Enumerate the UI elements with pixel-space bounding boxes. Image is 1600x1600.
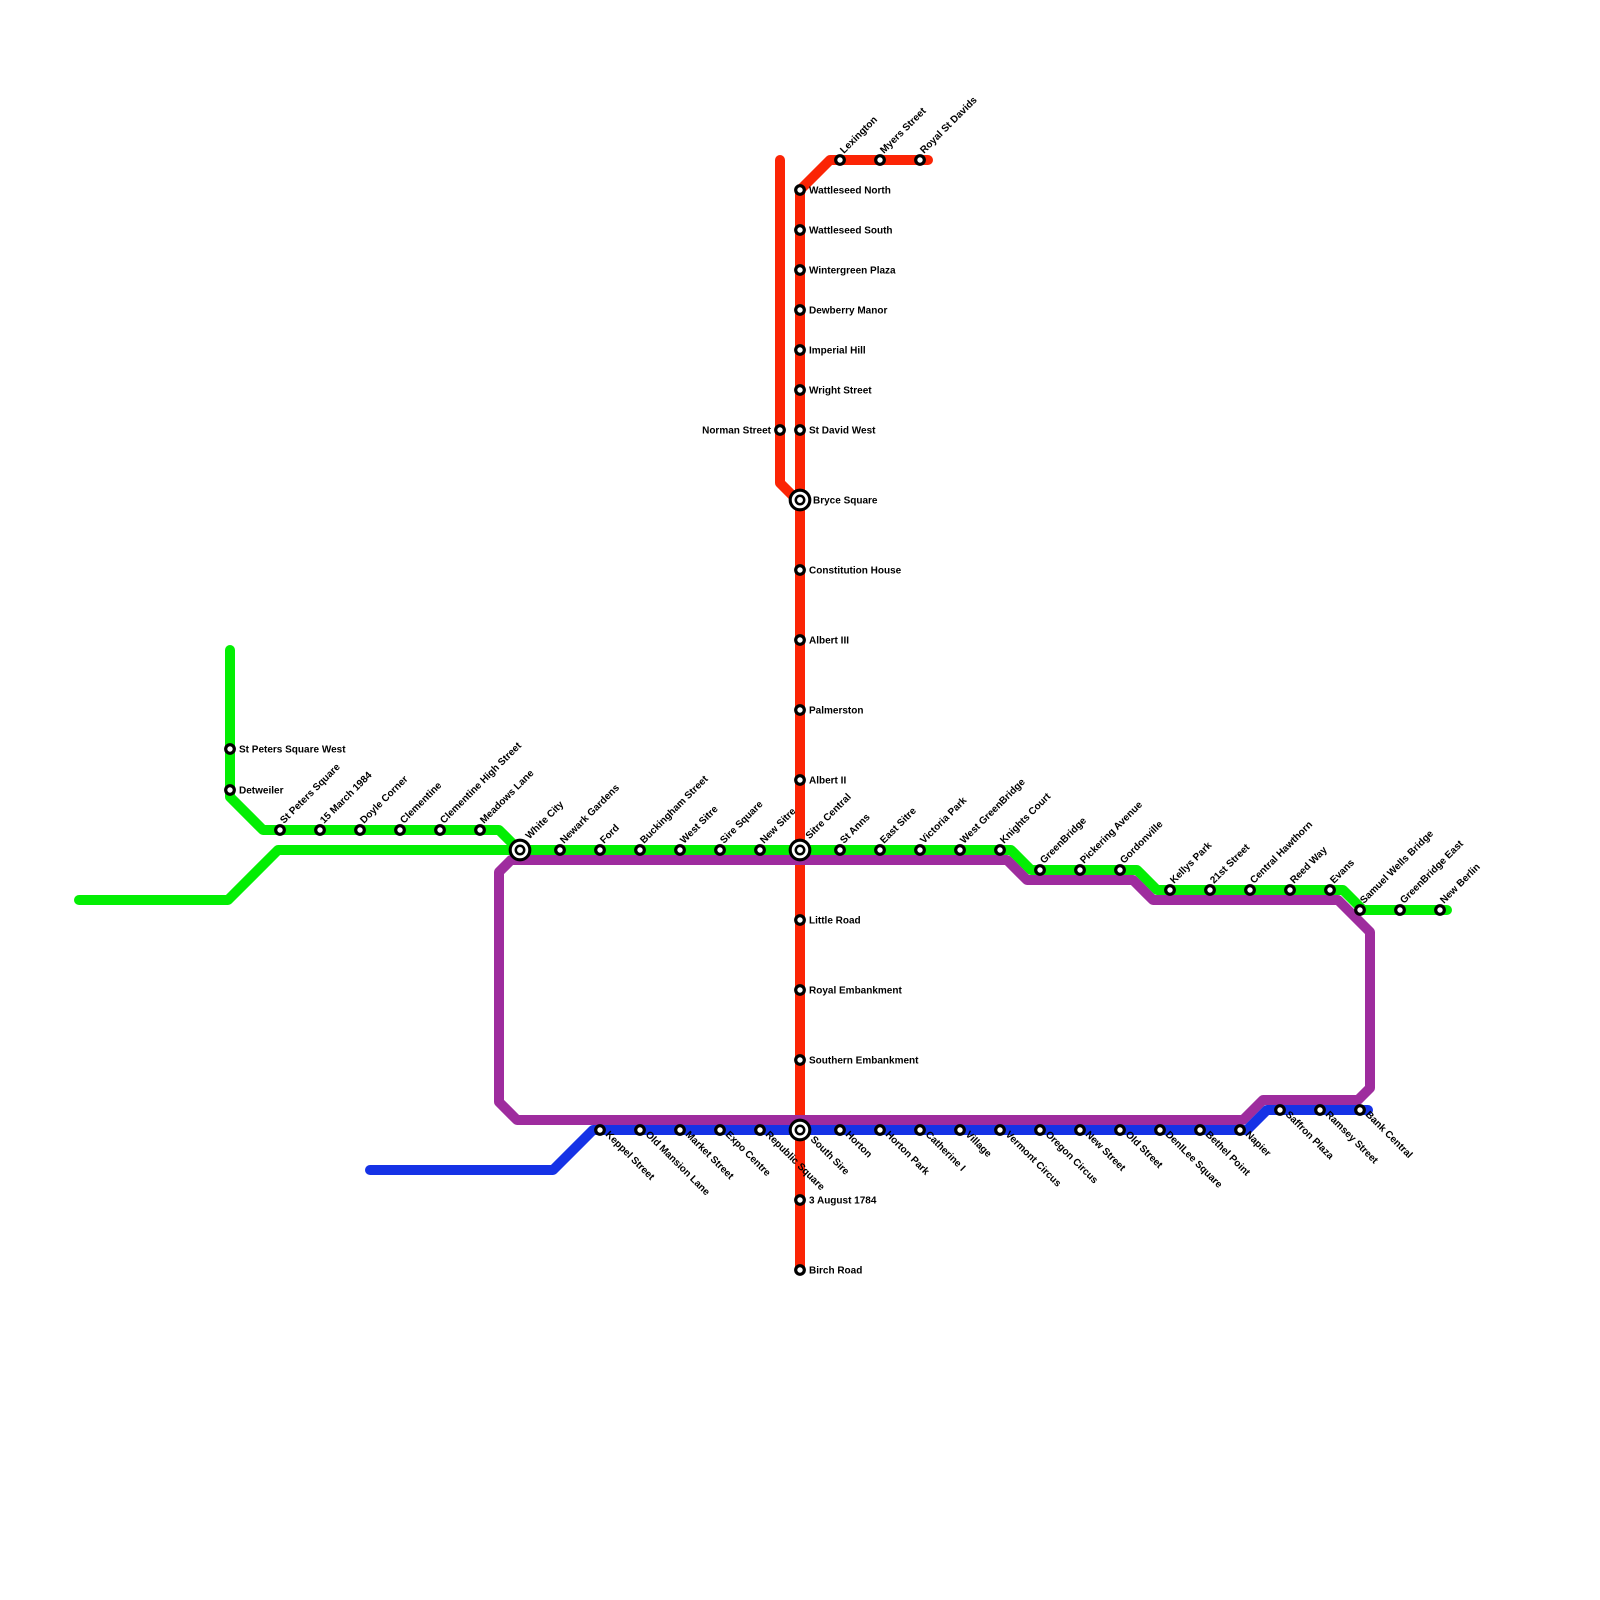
svg-text:Southern Embankment: Southern Embankment [809,1056,919,1067]
svg-text:Bryce Square: Bryce Square [813,496,878,507]
svg-text:Palmerston: Palmerston [809,706,863,717]
svg-text:St Peters Square West: St Peters Square West [239,745,346,756]
svg-text:Wintergreen Plaza: Wintergreen Plaza [809,266,896,277]
svg-text:Birch Road: Birch Road [809,1266,862,1277]
svg-text:Norman Street: Norman Street [702,426,772,437]
svg-text:Albert II: Albert II [809,776,846,787]
svg-text:St David West: St David West [809,426,876,437]
svg-text:Wattleseed South: Wattleseed South [809,226,893,237]
svg-text:Albert III: Albert III [809,636,849,647]
svg-text:Little Road: Little Road [809,916,861,927]
svg-text:Wattleseed North: Wattleseed North [809,186,891,197]
svg-text:3 August 1784: 3 August 1784 [809,1196,877,1207]
svg-text:Detweiler: Detweiler [239,786,284,797]
svg-text:Constitution House: Constitution House [809,566,902,577]
svg-text:Dewberry Manor: Dewberry Manor [809,306,887,317]
svg-text:Wright Street: Wright Street [809,386,872,397]
svg-text:Royal Embankment: Royal Embankment [809,986,902,997]
svg-text:Imperial Hill: Imperial Hill [809,346,866,357]
